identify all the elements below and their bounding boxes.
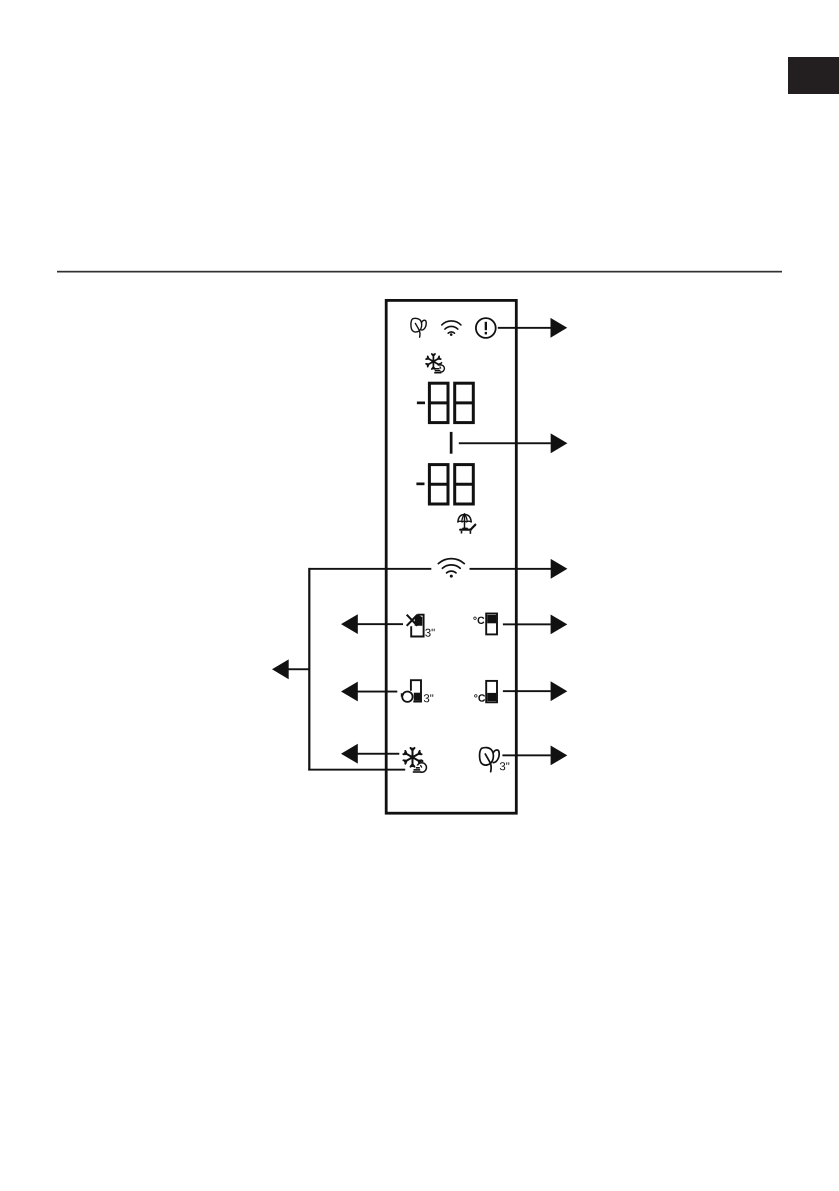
label 3 seconds (door alarm)	[425, 629, 434, 637]
bracket output arrow (left)	[272, 659, 309, 679]
control panel outline	[386, 300, 516, 813]
fridge temperature button	[486, 614, 497, 635]
holiday mode indicator (beach)	[458, 514, 471, 529]
lower display digit 1	[429, 465, 448, 504]
door alarm on button (cycle door)	[401, 680, 421, 702]
fridge temperature label	[473, 617, 484, 624]
black header tab	[788, 57, 839, 94]
freezer temperature button	[486, 681, 497, 702]
eco button leaf	[480, 748, 500, 772]
arrow from super freeze button (left)	[341, 744, 399, 764]
upper display digit 1	[429, 383, 448, 422]
lower display minus sign	[416, 483, 424, 486]
super freeze indicator (snowflake with timer)	[426, 354, 444, 374]
freezer temperature label	[474, 694, 485, 701]
upper display digit 2	[455, 383, 474, 422]
arrow from fridge temperature button	[503, 615, 567, 635]
arrow to wifi symbol	[470, 559, 568, 579]
wifi pairing symbol (large)	[438, 559, 464, 573]
arrow from door alarm button (left)	[341, 614, 403, 634]
alarm indicator	[476, 318, 496, 338]
eco leaf indicator	[411, 318, 426, 337]
label 3 seconds (door alarm on)	[424, 694, 433, 702]
arrow from freezer temperature button	[503, 681, 567, 701]
wire from bracket to wifi symbol	[309, 568, 431, 570]
arrow to alarm indicator	[498, 318, 567, 338]
upper display minus sign	[417, 402, 425, 405]
display divider bar	[450, 432, 453, 454]
wifi indicator small	[442, 321, 461, 333]
arrow from eco button	[502, 746, 567, 766]
left bracket bottom wire	[308, 769, 405, 771]
arrow to display divider	[459, 433, 568, 453]
super freeze button (snowflake with timer)	[403, 748, 421, 767]
label 3 seconds (eco button)	[500, 762, 509, 770]
door alarm off button (X door)	[407, 615, 424, 637]
horizontal rule	[57, 271, 782, 273]
lower display digit 2	[455, 465, 474, 504]
arrow from door alarm on button (left)	[341, 682, 397, 702]
left bracket vertical wire	[308, 568, 310, 771]
